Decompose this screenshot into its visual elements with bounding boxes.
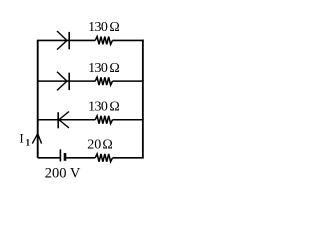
svg-text:200 V: 200 V [45,165,81,181]
svg-text:20: 20 [87,138,101,153]
svg-text:130: 130 [88,20,108,35]
svg-text:Ω: Ω [109,20,119,35]
svg-text:130: 130 [88,61,108,76]
svg-text:Ω: Ω [109,99,119,114]
svg-text:130: 130 [88,99,108,114]
svg-text:I: I [19,130,23,145]
svg-text:Ω: Ω [109,61,119,76]
svg-text:Ω: Ω [102,138,112,153]
svg-text:1: 1 [26,137,31,147]
